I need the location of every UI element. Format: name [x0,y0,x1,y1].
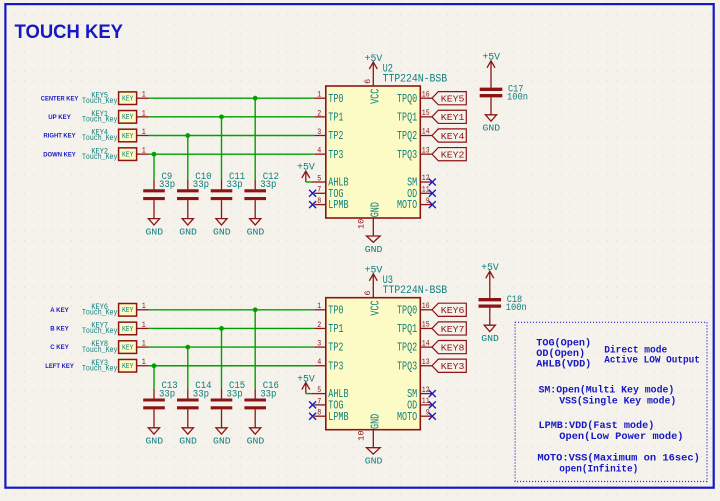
net name label CENTER KEY [41,95,79,102]
svg-text:+5V: +5V [365,54,383,65]
svg-text:TTP224N-BSB: TTP224N-BSB [383,74,448,86]
ground symbol below C18 [481,325,499,344]
pin 16 TPQ0 of U3 [397,301,432,317]
note text TOG [536,338,591,350]
svg-text:3: 3 [317,127,321,137]
svg-text:1: 1 [142,301,146,311]
pin 5 AHLB of U2 [314,173,348,189]
note text open [559,464,638,476]
svg-text:KEY: KEY [122,363,134,371]
junction [152,152,157,157]
svg-text:Touch_Key: Touch_Key [82,152,117,162]
touch key switch KEY4 [119,127,149,142]
wire +5V to AHLB [306,178,315,182]
svg-text:VCC: VCC [369,89,383,104]
wire [153,154,155,179]
no-connect flag on pin 11 OD of U2 [429,190,436,197]
wire [254,310,256,389]
svg-text:+5V: +5V [365,266,383,277]
svg-text:1: 1 [142,108,146,118]
svg-text:KEY: KEY [122,96,134,104]
svg-text:12: 12 [422,173,430,183]
svg-text:5: 5 [317,385,321,395]
svg-text:33p: 33p [159,179,175,191]
svg-text:TOG(Open): TOG(Open) [536,338,591,350]
svg-text:KEY: KEY [122,307,134,315]
svg-text:LPMB: LPMB [328,198,348,212]
svg-text:KEY4: KEY4 [441,131,465,142]
value TTP224N-BSB of U3 [383,285,448,297]
svg-text:GND: GND [365,456,383,467]
svg-text:1: 1 [142,127,146,137]
pin 4 TP3 of U2 [314,146,343,162]
global label KEY2 [432,148,466,161]
wire [187,136,189,180]
note text Direct mode [604,344,667,356]
svg-text:KEY3: KEY3 [441,361,465,372]
wire [221,328,223,388]
svg-text:GND: GND [481,333,499,344]
pin 2 TP1 of U3 [314,320,343,336]
net name label C KEY [50,344,69,351]
svg-text:Open(Low Power mode): Open(Low Power mode) [559,431,683,443]
pin 14 TPQ2 of U2 [397,127,432,143]
svg-text:KEY5: KEY5 [441,94,465,105]
svg-text:GND: GND [213,436,231,447]
ground symbol below U3 [365,448,383,467]
svg-text:GND: GND [369,414,383,429]
svg-text:Active LOW Output: Active LOW Output [604,355,700,367]
note text OD [536,348,585,360]
pin 6 VCC of U2 [363,69,383,104]
capacitor C16 33p [244,380,279,428]
junction [152,363,157,368]
ground symbol below C13 [146,428,164,447]
svg-text:8: 8 [317,408,321,418]
svg-text:13: 13 [422,145,430,155]
wire [149,346,315,348]
svg-text:TPQ3: TPQ3 [397,359,417,373]
svg-text:LPMB:VDD(Fast mode): LPMB:VDD(Fast mode) [539,420,655,432]
svg-text:open(Infinite): open(Infinite) [559,464,638,476]
svg-text:8: 8 [317,196,321,206]
wire [149,153,315,155]
svg-text:TPQ0: TPQ0 [397,92,417,106]
reference KEY5 [91,92,108,100]
junction [185,133,190,138]
svg-text:TP0: TP0 [328,303,343,317]
junction [253,307,258,312]
svg-text:Direct mode: Direct mode [604,344,667,356]
svg-text:LEFT KEY: LEFT KEY [45,363,74,370]
pin 7 TOG of U3 [314,396,343,412]
capacitor C15 33p [211,380,246,428]
svg-text:B KEY: B KEY [50,326,69,333]
svg-text:TOUCH KEY: TOUCH KEY [15,21,124,43]
svg-text:+5V: +5V [482,53,500,64]
global label KEY5 [432,92,466,105]
svg-text:GND: GND [365,244,383,255]
ground symbol below U2 [365,236,383,255]
svg-text:TPQ3: TPQ3 [397,148,417,162]
wire [254,98,256,179]
svg-text:KEY6: KEY6 [441,305,465,316]
svg-text:A KEY: A KEY [50,307,69,314]
svg-text:16: 16 [422,89,430,99]
svg-text:+5V: +5V [297,374,315,385]
reference KEY7 [91,323,108,331]
capacitor C14 33p [177,380,212,428]
ground symbol below C15 [213,428,231,447]
ground symbol below C14 [179,428,197,447]
ground symbol below C9 [146,219,164,238]
note text VSS [559,395,676,407]
svg-text:KEY8: KEY8 [441,342,465,353]
pin 13 TPQ3 of U2 [397,145,432,161]
svg-text:1: 1 [317,301,321,311]
svg-text:1: 1 [142,146,146,156]
note text Open [559,431,683,443]
pin 14 TPQ2 of U3 [397,338,432,354]
svg-text:9: 9 [426,196,430,206]
svg-text:TTP224N-BSB: TTP224N-BSB [383,285,448,297]
pin 1 TP0 of U2 [314,90,343,106]
svg-text:GND: GND [179,226,197,237]
note text AHLB [536,359,591,371]
svg-text:GND: GND [213,226,231,237]
global label KEY7 [432,322,466,335]
svg-text:KEY: KEY [122,151,134,159]
svg-text:TPQ1: TPQ1 [397,322,417,336]
pin 12 SM of U3 [407,385,432,401]
ground symbol below C12 [247,219,265,238]
svg-text:33p: 33p [227,179,243,191]
svg-text:1: 1 [317,90,321,100]
svg-text:Touch_Key: Touch_Key [82,133,117,143]
svg-text:33p: 33p [193,388,209,400]
note text Active LOW Output [604,355,700,367]
global label KEY1 [432,110,466,123]
no-connect flag on pin 12 SM of U2 [429,179,436,186]
svg-text:15: 15 [422,320,430,330]
svg-text:100n: 100n [507,93,528,104]
svg-text:33p: 33p [159,388,175,400]
svg-text:15: 15 [422,108,430,118]
svg-text:1: 1 [142,357,146,367]
junction [219,114,224,119]
svg-text:14: 14 [422,338,430,348]
wire [149,365,315,367]
IC U3 TTP224N-BSB body [326,298,421,430]
pin 15 TPQ1 of U2 [397,108,432,124]
svg-text:7: 7 [317,396,321,406]
svg-text:GND: GND [247,226,265,237]
touch key switch KEY6 [119,301,149,316]
svg-text:CENTER KEY: CENTER KEY [41,95,79,102]
capacitor C13 33p [143,380,178,428]
svg-text:6: 6 [363,79,373,84]
svg-text:TPQ2: TPQ2 [397,129,417,143]
svg-text:GND: GND [179,436,197,447]
svg-text:14: 14 [422,127,430,137]
svg-text:KEY: KEY [122,133,134,141]
wire [149,135,315,137]
svg-text:KEY7: KEY7 [441,324,465,335]
touch key switch KEY1 [119,108,149,123]
reference KEY3 [91,360,108,368]
+5V power symbol at AHLB of U3 [297,374,315,390]
net name label RIGHT KEY [44,133,77,140]
svg-text:Touch_Key: Touch_Key [82,363,117,373]
svg-text:4: 4 [317,146,321,156]
value Touch_Key of KEY7 [82,326,117,336]
value Touch_Key of KEY1 [82,115,117,125]
svg-text:4: 4 [317,357,321,367]
pin 11 OD of U3 [407,396,432,412]
svg-text:SM:Open(Multi Key mode): SM:Open(Multi Key mode) [539,384,675,396]
svg-text:TP3: TP3 [328,359,343,373]
net name label DOWN KEY [43,151,76,158]
svg-text:GND: GND [483,123,501,134]
junction [253,96,258,101]
no-connect flag on pin 9 MOTO of U2 [429,201,436,208]
svg-text:+5V: +5V [481,263,499,274]
svg-text:2: 2 [317,320,321,330]
svg-text:VSS(Single Key mode): VSS(Single Key mode) [559,395,676,407]
svg-text:5: 5 [317,173,321,183]
svg-text:TP2: TP2 [328,129,343,143]
svg-text:KEY2: KEY2 [441,149,465,160]
svg-text:11: 11 [422,185,430,195]
+5V power symbol above C17 [482,53,500,69]
global label KEY3 [432,359,466,372]
wire [187,347,189,389]
capacitor C9 33p [143,171,175,219]
svg-text:VCC: VCC [369,300,383,315]
ground symbol below C11 [213,219,231,238]
note text MOTO:VSS [537,453,700,465]
svg-text:Touch_Key: Touch_Key [82,345,117,355]
svg-text:LPMB: LPMB [328,410,348,424]
+5V power symbol at AHLB of U2 [297,163,315,179]
pin 9 MOTO of U2 [397,196,432,212]
svg-text:TPQ0: TPQ0 [397,303,417,317]
svg-text:RIGHT KEY: RIGHT KEY [44,133,77,140]
reference KEY8 [91,341,108,349]
svg-text:Touch_Key: Touch_Key [82,326,117,336]
value TTP224N-BSB of U2 [383,74,448,86]
capacitor C18 100n [479,278,527,325]
reference U3 [383,275,393,287]
pin 8 LPMB of U3 [314,408,348,424]
no-connect flag on pin 11 OD of U3 [429,401,436,408]
junction [185,345,190,350]
net name label B KEY [50,326,69,333]
ground symbol below C16 [247,428,265,447]
capacitor C12 33p [244,171,279,219]
ground symbol below C17 [483,115,501,134]
svg-text:16: 16 [422,301,430,311]
reference KEY6 [91,304,108,312]
no-connect flag on pin 7 TOG of U3 [309,401,316,408]
svg-text:MOTO:VSS(Maximum on 16sec): MOTO:VSS(Maximum on 16sec) [537,453,700,465]
svg-text:6: 6 [363,290,373,295]
svg-text:Touch_Key: Touch_Key [82,115,117,125]
svg-text:GND: GND [247,436,265,447]
notes box [515,322,707,481]
reference KEY2 [91,148,108,156]
touch key switch KEY8 [119,339,149,354]
svg-text:33p: 33p [193,179,209,191]
no-connect flag on pin 12 SM of U3 [429,390,436,397]
pin 8 LPMB of U2 [314,196,348,212]
capacitor C10 33p [177,171,212,219]
IC U2 TTP224N-BSB body [326,86,421,218]
pin 5 AHLB of U3 [314,385,348,401]
svg-text:MOTO: MOTO [397,198,417,212]
svg-text:11: 11 [422,396,430,406]
pin 3 TP2 of U2 [314,127,343,143]
note text SM:Open [539,384,675,396]
svg-text:KEY1: KEY1 [441,112,465,123]
svg-text:AHLB(VDD): AHLB(VDD) [536,359,591,371]
svg-text:OD(Open): OD(Open) [536,348,585,360]
svg-text:GND: GND [369,202,383,217]
reference KEY4 [91,130,108,138]
+5V power symbol above U3 [365,266,383,282]
value Touch_Key of KEY6 [82,308,117,318]
svg-text:Touch_Key: Touch_Key [82,96,117,106]
value Touch_Key of KEY5 [82,96,117,106]
no-connect flag on pin 8 LPMB of U2 [309,201,316,208]
wire [221,117,223,180]
value Touch_Key of KEY3 [82,363,117,373]
svg-text:GND: GND [146,436,164,447]
svg-text:DOWN KEY: DOWN KEY [43,151,76,158]
wire [149,97,315,99]
title text TOUCH KEY [15,21,124,43]
svg-text:33p: 33p [260,179,276,191]
wire [149,327,315,329]
svg-text:33p: 33p [227,388,243,400]
pin 2 TP1 of U2 [314,108,343,124]
capacitor C11 33p [211,171,246,219]
svg-text:1: 1 [142,320,146,330]
svg-text:TP2: TP2 [328,341,343,355]
svg-text:2: 2 [317,108,321,118]
reference U2 [383,63,393,75]
pin 16 TPQ0 of U2 [397,89,432,105]
svg-text:TP0: TP0 [328,92,343,106]
pin 10 GND of U2 [357,202,383,236]
svg-text:GND: GND [146,226,164,237]
svg-text:TP1: TP1 [328,322,343,336]
value Touch_Key of KEY2 [82,152,117,162]
svg-text:100n: 100n [506,303,527,314]
svg-text:3: 3 [317,339,321,349]
pin 13 TPQ3 of U3 [397,357,432,373]
svg-text:9: 9 [426,407,430,417]
touch key switch KEY3 [119,357,149,372]
svg-text:KEY: KEY [122,114,134,122]
+5V power symbol above U2 [365,54,383,70]
no-connect flag on pin 7 TOG of U2 [309,190,316,197]
net name label LEFT KEY [45,363,74,370]
no-connect flag on pin 9 MOTO of U3 [429,413,436,420]
svg-text:1: 1 [142,90,146,100]
svg-text:1: 1 [142,339,146,349]
touch key switch KEY5 [119,90,149,105]
svg-text:UP KEY: UP KEY [48,114,71,121]
global label KEY4 [432,129,466,142]
svg-text:+5V: +5V [297,163,315,174]
ground symbol below C10 [179,219,197,238]
svg-text:TPQ1: TPQ1 [397,110,417,124]
svg-text:Touch_Key: Touch_Key [82,308,117,318]
wire +5V to AHLB [306,390,315,394]
global label KEY8 [432,341,466,354]
value Touch_Key of KEY8 [82,345,117,355]
svg-text:KEY: KEY [122,344,134,352]
pin 1 TP0 of U3 [314,301,343,317]
wire [149,116,315,118]
no-connect flag on pin 8 LPMB of U3 [309,413,316,420]
wire [149,309,315,311]
pin 10 GND of U3 [357,414,383,448]
capacitor C17 100n [480,68,528,115]
pin 9 MOTO of U3 [397,407,432,423]
net name label A KEY [50,307,69,314]
svg-text:33p: 33p [260,388,276,400]
pin 11 OD of U2 [407,185,432,201]
pin 12 SM of U2 [407,173,432,189]
svg-text:7: 7 [317,185,321,195]
svg-text:TP1: TP1 [328,110,343,124]
pin 6 VCC of U3 [363,281,383,316]
pin 7 TOG of U2 [314,185,343,201]
svg-text:TP3: TP3 [328,148,343,162]
note text LPMB:VDD [539,420,655,432]
touch key switch KEY7 [119,320,149,335]
touch key switch KEY2 [119,146,149,161]
wire [153,366,155,389]
global label KEY6 [432,303,466,316]
reference KEY1 [91,111,108,119]
pin 3 TP2 of U3 [314,339,343,355]
svg-text:MOTO: MOTO [397,410,417,424]
+5V power symbol above C18 [481,263,499,279]
value Touch_Key of KEY4 [82,133,117,143]
pin 4 TP3 of U3 [314,357,343,373]
svg-text:TPQ2: TPQ2 [397,341,417,355]
svg-text:C KEY: C KEY [50,344,69,351]
pin 15 TPQ1 of U3 [397,320,432,336]
svg-text:KEY: KEY [122,326,134,334]
junction [219,326,224,331]
svg-text:10: 10 [357,430,367,440]
svg-text:10: 10 [357,219,367,229]
svg-text:13: 13 [422,357,430,367]
net name label UP KEY [48,114,71,121]
svg-text:12: 12 [422,385,430,395]
